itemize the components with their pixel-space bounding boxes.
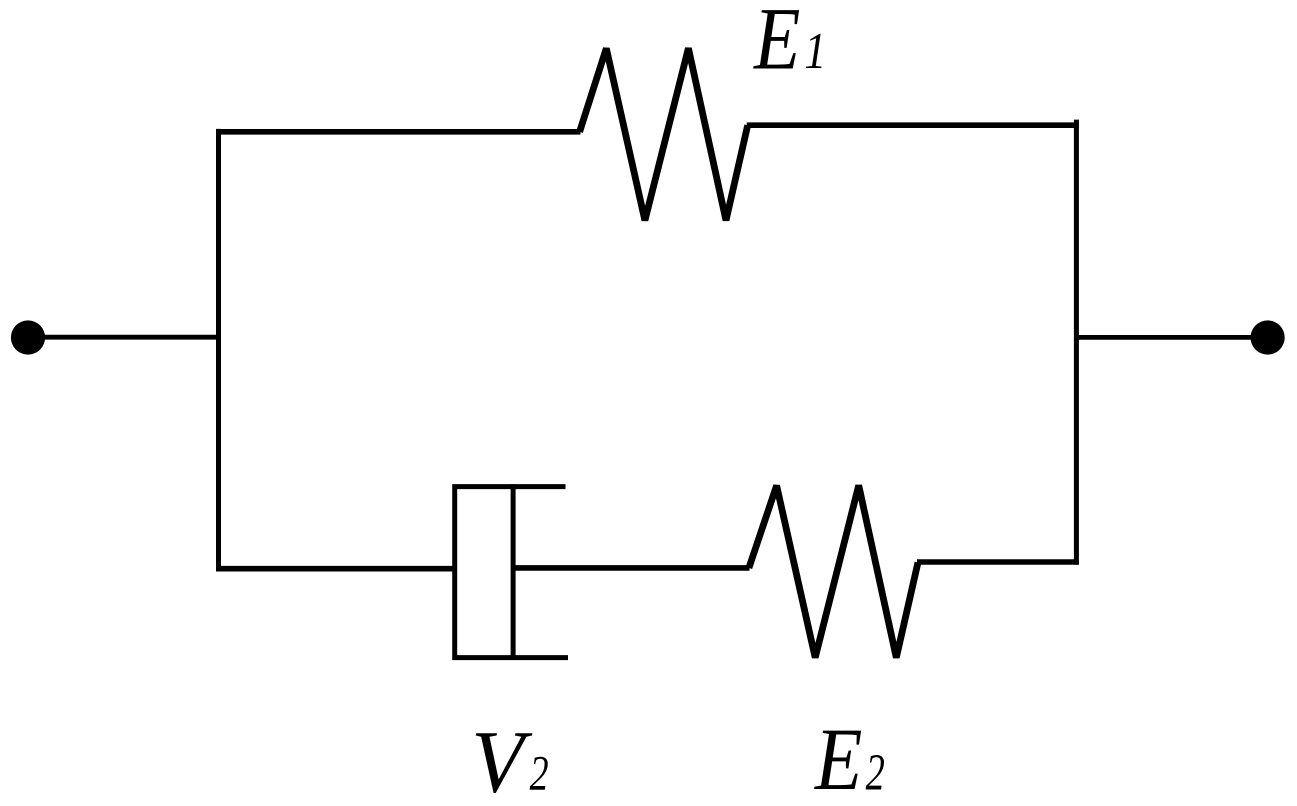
terminal dot left [11,320,45,354]
svg-text:V: V [471,712,532,806]
terminal dot right [1251,320,1285,354]
svg-text:2: 2 [530,746,549,801]
label E2 [814,711,885,806]
wire bottom-mid [513,565,749,571]
spring E1 (zigzag) [580,48,748,220]
wire bottom-right [917,559,1079,565]
svg-text:1: 1 [804,23,826,80]
wire top-right [747,122,1079,128]
label V2 [471,712,548,806]
wire right rail (node B vertical) [1074,120,1079,565]
wire top-left [216,129,581,135]
svg-text:E: E [814,711,862,806]
wire bottom-left [216,566,457,572]
wire left lead [28,335,219,340]
svg-text:E: E [753,0,800,88]
label E1 [753,0,826,88]
wire left rail (node A vertical) [216,129,221,572]
dashpot V2 cylinder [455,487,568,658]
svg-text:2: 2 [866,743,885,801]
spring E2 (zigzag) [749,485,918,657]
wire right lead [1076,335,1267,340]
dashpot V2 piston [511,484,516,660]
